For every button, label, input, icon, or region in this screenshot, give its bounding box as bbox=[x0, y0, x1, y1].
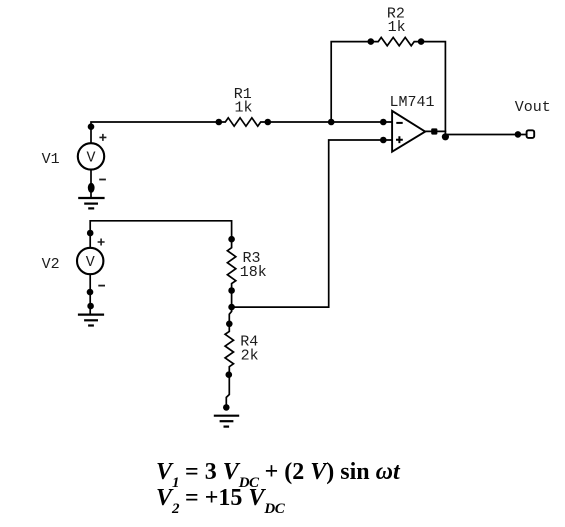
svg-text:2k: 2k bbox=[241, 348, 259, 365]
node output junction bbox=[442, 133, 449, 140]
node R3 bottom bbox=[228, 287, 235, 294]
svg-text:1k: 1k bbox=[388, 19, 406, 36]
node R1 left bbox=[216, 119, 223, 126]
node V2 top bbox=[87, 230, 94, 237]
wire V2 to ground bbox=[89, 274, 91, 314]
node R3-R4 junction bbox=[228, 304, 235, 311]
svg-text:V: V bbox=[86, 150, 95, 167]
Vout terminal bbox=[527, 130, 535, 138]
node feedback junction bbox=[328, 119, 335, 126]
node R1 right bbox=[265, 119, 272, 126]
svg-text:V1: V1 bbox=[42, 151, 60, 168]
svg-text:1k: 1k bbox=[235, 99, 253, 116]
node R4 top bbox=[226, 321, 233, 328]
node V2 bottom upper bbox=[87, 289, 94, 296]
wire V1 to ground bbox=[90, 170, 92, 197]
node non-inverting input bbox=[380, 137, 387, 144]
wire non-inverting input net bbox=[232, 140, 393, 307]
op-amp U1 LM741 bbox=[392, 111, 425, 152]
annotation V1 equation bbox=[156, 459, 400, 486]
ground under R4 bbox=[214, 416, 239, 427]
svg-text:LM741: LM741 bbox=[390, 94, 435, 111]
node op-amp output bbox=[431, 128, 437, 134]
wire output to Vout terminal bbox=[445, 134, 526, 136]
node V2 bottom lower bbox=[87, 303, 94, 310]
svg-text:Vout: Vout bbox=[515, 99, 551, 116]
wire op-amp output stub bbox=[425, 130, 445, 132]
node V1 top bbox=[88, 123, 95, 130]
svg-text:V: V bbox=[86, 254, 95, 271]
node R4 bottom bbox=[226, 371, 233, 378]
voltage source V2 bbox=[77, 239, 105, 286]
node R3 top bbox=[228, 236, 235, 243]
node V1 bottom bbox=[88, 183, 95, 193]
svg-text:18k: 18k bbox=[240, 264, 267, 281]
wire V1 to inverting input (through R1) bbox=[91, 118, 392, 143]
node inverting input bbox=[380, 119, 387, 126]
svg-text:V2: V2 bbox=[42, 256, 60, 273]
node R2 right bbox=[418, 38, 425, 45]
ground under V2 bbox=[78, 315, 104, 326]
node before terminal bbox=[515, 131, 522, 138]
node bottom ground bbox=[223, 404, 230, 411]
node R2 left bbox=[368, 38, 375, 45]
annotation V2 equation bbox=[156, 485, 284, 512]
wire V2 through R3 and R4 to ground bbox=[90, 221, 236, 408]
voltage source V1 bbox=[78, 134, 107, 180]
wire feedback loop through R2 bbox=[331, 37, 445, 136]
ground under V1 bbox=[78, 198, 104, 208]
